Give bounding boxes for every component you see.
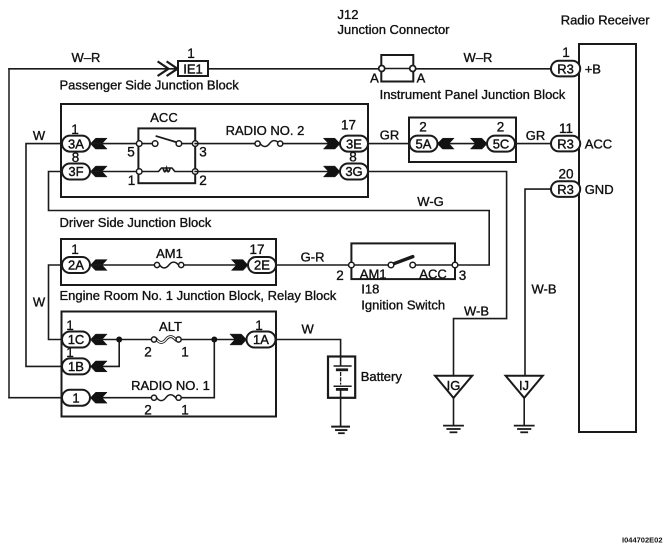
- svg-text:Driver Side Junction Block: Driver Side Junction Block: [60, 215, 212, 230]
- fuse RADIO NO. 2: [260, 141, 279, 147]
- svg-text:ACC: ACC: [150, 110, 177, 125]
- svg-text:R3: R3: [557, 136, 574, 151]
- svg-text:3G: 3G: [345, 164, 362, 179]
- svg-text:R3: R3: [557, 182, 574, 197]
- svg-text:1: 1: [71, 122, 79, 137]
- svg-text:1: 1: [66, 318, 74, 333]
- svg-text:Junction Connector: Junction Connector: [338, 22, 451, 37]
- arrow at 1A: [230, 334, 247, 345]
- svg-text:W–R: W–R: [464, 50, 493, 65]
- svg-text:IG: IG: [447, 378, 461, 393]
- ground under battery: [332, 426, 349, 428]
- svg-text:1B: 1B: [68, 359, 84, 374]
- svg-text:W-G: W-G: [417, 194, 443, 209]
- svg-text:R3: R3: [557, 61, 574, 76]
- fuse RADIO NO. 1: [157, 395, 176, 401]
- svg-text:W: W: [33, 128, 46, 143]
- svg-text:1A: 1A: [253, 332, 269, 347]
- svg-text:1: 1: [128, 173, 136, 188]
- connector 1A: [247, 332, 276, 348]
- svg-text:Instrument Panel Junction Bloc: Instrument Panel Junction Block: [380, 87, 566, 102]
- fuse AM1: [160, 262, 179, 268]
- fuse ALT (fusible link, double wave): [157, 337, 176, 343]
- arrow at 5A: [438, 138, 455, 149]
- arrow at 1C: [91, 334, 108, 345]
- svg-text:3: 3: [199, 145, 207, 160]
- svg-text:IJ: IJ: [519, 378, 529, 393]
- connector 2A: [62, 257, 90, 273]
- connector 5C: [487, 136, 515, 152]
- arrow at 3G: [323, 166, 340, 177]
- svg-text:2A: 2A: [68, 258, 84, 273]
- svg-text:2: 2: [497, 120, 505, 135]
- wire: GND from R3 down to IJ: [525, 189, 551, 376]
- svg-text:5C: 5C: [493, 136, 510, 151]
- wire: W-B from 3G to IG ground: [368, 172, 507, 376]
- svg-text:W: W: [33, 295, 46, 310]
- connector 1C: [62, 332, 90, 348]
- svg-text:W–R: W–R: [72, 50, 101, 65]
- switch ACC (relay in driver block): [138, 128, 195, 183]
- svg-text:3F: 3F: [68, 164, 83, 179]
- svg-text:RADIO NO. 1: RADIO NO. 1: [131, 378, 210, 393]
- engine room junction block (upper): [61, 239, 276, 285]
- battery: [328, 357, 355, 398]
- driver side junction block: [61, 104, 368, 197]
- switch I18 ignition switch: [351, 243, 455, 279]
- switch lever: [157, 136, 177, 142]
- arrow at 2E: [231, 260, 248, 271]
- wire: ACC switch to 3E with fuse RADIO NO. 2: [195, 143, 255, 145]
- connector 3E: [340, 136, 368, 152]
- svg-text:RADIO NO. 2: RADIO NO. 2: [226, 123, 305, 138]
- radio receiver block: [579, 44, 636, 432]
- wire: J12 to R3 +B: [416, 68, 551, 70]
- connector R3 pin GND: [551, 181, 580, 197]
- connector 1B: [62, 358, 90, 374]
- arrow at 5C: [470, 138, 487, 149]
- arrow at 3F: [91, 166, 108, 177]
- svg-text:1: 1: [187, 46, 195, 61]
- svg-text:Ignition Switch: Ignition Switch: [361, 298, 445, 313]
- engine room junction block (lower): [62, 312, 277, 417]
- svg-text:I044702E02: I044702E02: [622, 536, 662, 545]
- wire: 1C row with fuse ALT to 1A: [90, 339, 151, 341]
- svg-text:W: W: [302, 322, 315, 337]
- svg-text:1: 1: [71, 242, 79, 257]
- connector 3A: [62, 136, 90, 152]
- wire: GR from 5C to R3 ACC: [516, 143, 551, 145]
- svg-text:W-B: W-B: [464, 304, 489, 319]
- svg-text:5A: 5A: [416, 136, 432, 151]
- svg-text:2E: 2E: [254, 258, 270, 273]
- svg-text:8: 8: [349, 150, 357, 165]
- svg-text:2: 2: [144, 403, 152, 418]
- wire: 3F to ACC switch bottom: [90, 171, 139, 173]
- wire between 5A and 5C: [438, 143, 488, 145]
- wire: from right dot down to RADIO NO. 1 fuse row: [181, 340, 214, 398]
- svg-text:A: A: [370, 71, 379, 86]
- svg-text:20: 20: [558, 167, 573, 182]
- connector 3F: [62, 164, 90, 180]
- relay coil between 1 and 2: [139, 168, 195, 172]
- svg-text:2: 2: [144, 345, 152, 360]
- arrow at 3E: [323, 138, 340, 149]
- svg-text:G-R: G-R: [301, 250, 325, 265]
- svg-text:ACC: ACC: [419, 267, 446, 282]
- svg-text:I18: I18: [361, 282, 379, 297]
- connector 5A: [410, 136, 438, 152]
- arrow at 1B: [91, 361, 108, 372]
- svg-text:1: 1: [72, 390, 79, 405]
- wire: GR from 3E to 5A box: [368, 143, 409, 145]
- connector R3 pin +B: [551, 61, 580, 77]
- svg-text:Engine Room No. 1 Junction Blo: Engine Room No. 1 Junction Block, Relay …: [60, 288, 337, 303]
- svg-text:1: 1: [181, 345, 189, 360]
- svg-text:11: 11: [559, 121, 573, 136]
- svg-text:AM1: AM1: [156, 246, 183, 261]
- junction connector block 5A/5C: [409, 118, 516, 163]
- arrow at connector 1: [91, 392, 108, 403]
- connector R3 pin ACC: [551, 136, 580, 152]
- svg-text:Passenger Side Junction Block: Passenger Side Junction Block: [60, 78, 240, 93]
- svg-text:1: 1: [66, 345, 74, 360]
- svg-text:8: 8: [72, 150, 80, 165]
- svg-text:GR: GR: [380, 128, 400, 143]
- ignition lever: [393, 257, 413, 265]
- wire: main left vertical bus W-R/W: [8, 69, 10, 398]
- svg-text:17: 17: [249, 242, 264, 257]
- connector arrows >> into IE1: [159, 62, 169, 75]
- wire: from dot down to 1B: [90, 340, 119, 367]
- svg-text:IE1: IE1: [183, 62, 203, 77]
- svg-text:1: 1: [255, 318, 263, 333]
- wire: W from 2A down to 1C: [49, 265, 63, 340]
- svg-text:+B: +B: [585, 61, 601, 76]
- svg-text:ALT: ALT: [159, 319, 182, 334]
- connector 2E: [248, 257, 276, 273]
- wire: 2A to 2E with fuse AM1: [90, 264, 154, 266]
- connector 1: [62, 390, 90, 406]
- svg-text:2: 2: [199, 173, 207, 188]
- ground IG: [435, 376, 472, 398]
- wire: left bus into connector 1: [9, 397, 62, 399]
- junction connector J12: [381, 55, 413, 82]
- wire: IE1 to J12 connector: [208, 68, 379, 70]
- wire: W from 3A down to 1B: [26, 144, 62, 367]
- wire: 3A to ACC switch: [90, 143, 139, 145]
- arrow at 2A: [91, 260, 108, 271]
- wire: top W-R horizontal from left bus to IE1: [9, 68, 178, 70]
- svg-text:17: 17: [341, 118, 356, 133]
- wire: W-G from 3F to ignition switch ACC: [49, 172, 490, 266]
- svg-text:Radio Receiver: Radio Receiver: [561, 13, 651, 28]
- svg-text:2: 2: [419, 120, 427, 135]
- svg-text:1: 1: [181, 403, 189, 418]
- connector 3G: [340, 164, 368, 180]
- svg-text:GND: GND: [585, 182, 614, 197]
- wire: G-R from 2E to ignition switch: [276, 264, 351, 266]
- svg-text:J12: J12: [338, 7, 359, 22]
- wire: W from 1A to battery: [276, 340, 341, 357]
- svg-text:AM1: AM1: [360, 267, 387, 282]
- svg-text:Battery: Battery: [361, 369, 403, 384]
- svg-text:3: 3: [459, 268, 467, 283]
- svg-text:1: 1: [562, 45, 570, 60]
- arrow at 3A: [91, 138, 108, 149]
- connector IE1: [178, 61, 208, 76]
- svg-text:W-B: W-B: [532, 282, 557, 297]
- node junction dot right: [211, 337, 217, 343]
- wire: ACC switch to 3G: [195, 171, 340, 173]
- svg-text:A: A: [417, 71, 426, 86]
- svg-text:2: 2: [336, 268, 344, 283]
- svg-text:GR: GR: [526, 128, 546, 143]
- svg-text:5: 5: [127, 145, 135, 160]
- svg-text:ACC: ACC: [585, 136, 612, 151]
- node junction dot left: [116, 337, 122, 343]
- ground IJ: [506, 376, 543, 398]
